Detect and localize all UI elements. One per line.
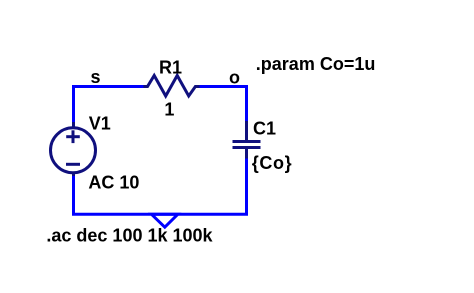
svg-text:AC 10: AC 10 bbox=[88, 173, 139, 193]
svg-text:o: o bbox=[229, 68, 240, 88]
svg-text:C1: C1 bbox=[253, 119, 276, 139]
svg-text:V1: V1 bbox=[89, 113, 111, 133]
svg-text:R1: R1 bbox=[159, 58, 182, 78]
ground bbox=[152, 214, 178, 227]
wire bottom segment bbox=[72, 213, 248, 216]
capacitor C1 bbox=[233, 121, 261, 159]
wire top-right segment (node o) bbox=[198, 85, 248, 88]
svg-text:.param Co=1u: .param Co=1u bbox=[256, 54, 376, 74]
svg-text:{Co}: {Co} bbox=[252, 153, 292, 173]
wire left vertical lower bbox=[72, 174, 75, 216]
wire right vertical upper bbox=[245, 85, 248, 125]
resistor R1 bbox=[143, 76, 199, 97]
voltage source V1 bbox=[51, 122, 96, 176]
wire top-left segment (node s) bbox=[72, 85, 145, 88]
svg-text:.ac dec 100 1k 100k: .ac dec 100 1k 100k bbox=[46, 226, 213, 246]
wire right vertical lower bbox=[245, 158, 248, 216]
wire left vertical upper bbox=[72, 85, 75, 124]
svg-text:s: s bbox=[91, 67, 101, 87]
svg-text:1: 1 bbox=[164, 100, 174, 120]
